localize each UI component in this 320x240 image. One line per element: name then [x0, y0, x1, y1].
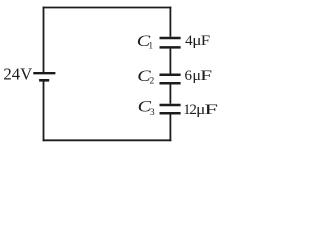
- wire right: top rail to C1: [169, 7, 171, 37]
- svg-text:6μF: 6μF: [185, 68, 213, 84]
- svg-text:2: 2: [150, 77, 155, 87]
- capacitor C2: [160, 75, 181, 84]
- wire right: C3 to bottom rail: [169, 114, 171, 141]
- svg-text:3: 3: [150, 108, 155, 118]
- capacitor C3: [160, 105, 181, 113]
- svg-text:1: 1: [148, 42, 153, 52]
- wire right: C1 to C2: [169, 49, 171, 74]
- capacitor C1: [160, 38, 181, 47]
- wire bottom: [43, 139, 172, 141]
- wire top: [43, 7, 172, 9]
- svg-text:24V: 24V: [3, 65, 32, 84]
- svg-text:4μF: 4μF: [185, 33, 210, 49]
- wire left lower (battery to bottom rail): [43, 81, 45, 141]
- wire right: C2 to C3: [169, 84, 171, 103]
- wire left upper (top rail to battery): [43, 7, 45, 73]
- svg-text:12μF: 12μF: [183, 102, 218, 118]
- battery 24V: [33, 73, 55, 80]
